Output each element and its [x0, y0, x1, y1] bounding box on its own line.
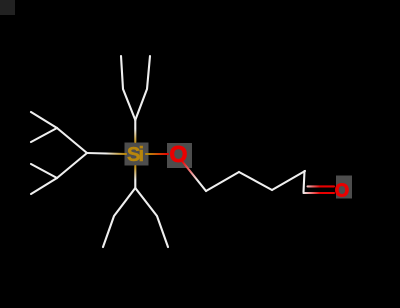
svg-text:O: O [335, 179, 349, 200]
label matte box O ether [167, 143, 192, 168]
wire left upper chevron a [31, 112, 57, 128]
wire left lower chevron a [31, 164, 57, 178]
wire chain bond 2 [239, 172, 272, 190]
wire Si up bond [134, 120, 136, 142]
wire sec-butyl top left leg [121, 56, 135, 120]
wire chain bond 3 [272, 171, 305, 190]
corner artifact square [0, 0, 15, 15]
wire left lower chevron b [31, 178, 57, 194]
wire sec-butyl bottom right leg [135, 188, 168, 247]
svg-text:O: O [170, 141, 188, 167]
label matte box Si [125, 143, 149, 166]
wire sec-butyl top right leg [135, 56, 150, 120]
label matte box O carbonyl [336, 176, 352, 199]
wire Si left bond [87, 153, 126, 154]
wire vertical bond to carbonyl C [304, 171, 305, 192]
wire O to CH2 [182, 161, 206, 191]
wire left upper chevron b [31, 128, 57, 142]
carbonyl double bond main line [304, 192, 335, 194]
wire left arm lower [57, 153, 87, 178]
wire Si-O bond [146, 153, 168, 155]
wire left arm upper [57, 128, 87, 153]
wire chain bond 1 [206, 172, 239, 191]
wire Si down bond [134, 166, 136, 188]
carbonyl double bond inner line [308, 185, 335, 187]
svg-text:Si: Si [127, 144, 144, 166]
wire sec-butyl bottom left leg [103, 188, 135, 247]
